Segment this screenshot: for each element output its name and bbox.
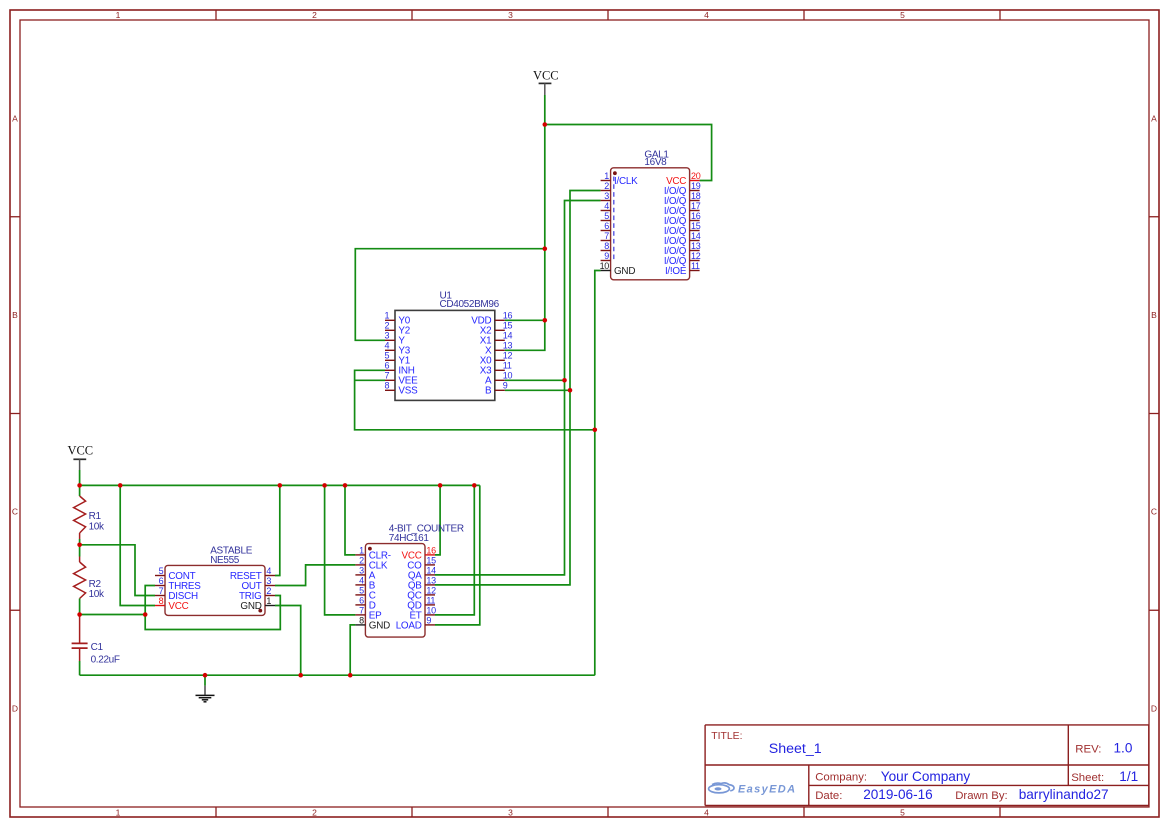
svg-text:10: 10	[600, 261, 610, 271]
junction R1/R2 node	[77, 543, 82, 548]
svg-text:NE555: NE555	[210, 555, 240, 566]
svg-text:0.22uF: 0.22uF	[91, 654, 120, 665]
svg-text:1: 1	[116, 10, 121, 20]
wire rail to 74HC161 EP pin7	[325, 485, 356, 615]
wire VCC to GAL1 VCC pin20	[545, 125, 712, 181]
svg-text:C: C	[12, 507, 18, 517]
svg-text:3: 3	[384, 331, 389, 341]
svg-text:A: A	[1151, 114, 1157, 124]
svg-text:14: 14	[503, 331, 513, 341]
svg-text:12: 12	[691, 251, 701, 261]
svg-text:11: 11	[426, 595, 435, 605]
svg-text:LOAD: LOAD	[396, 620, 422, 631]
junction ground net corner	[593, 428, 598, 433]
svg-text:10k: 10k	[89, 522, 105, 533]
svg-text:7: 7	[159, 586, 164, 596]
svg-text:4: 4	[266, 566, 271, 576]
wire U1 Y pin3 to VCC net	[355, 249, 545, 341]
svg-text:8: 8	[384, 381, 389, 391]
svg-text:Company:: Company:	[815, 772, 867, 784]
power flag VCC top	[533, 68, 559, 95]
svg-text:10k: 10k	[89, 589, 105, 600]
svg-text:C: C	[1151, 507, 1157, 517]
IC NE555 ASTABLE timer	[155, 565, 275, 615]
resistor R1 10k	[74, 485, 105, 544]
svg-text:7: 7	[384, 371, 389, 381]
wire U1 VDD pin16 to VCC net	[505, 319, 545, 321]
svg-text:6: 6	[384, 361, 389, 371]
IC 74HC161 4-BIT_COUNTER	[355, 544, 436, 638]
svg-text:3: 3	[266, 576, 271, 586]
svg-text:5: 5	[604, 211, 609, 221]
svg-text:barrylinando27: barrylinando27	[1019, 787, 1109, 802]
svg-text:1: 1	[604, 171, 609, 181]
power flag VCC left	[67, 443, 93, 485]
IC GAL1 16V8 PLD	[600, 168, 701, 280]
svg-text:8: 8	[604, 241, 609, 251]
wire NE555 THRES pin6 to TRIG pin2	[145, 586, 280, 630]
svg-text:I/CLK: I/CLK	[614, 176, 638, 187]
svg-text:VCC: VCC	[67, 443, 93, 457]
svg-text:74HC161: 74HC161	[389, 533, 430, 544]
svg-text:15: 15	[503, 321, 513, 331]
svg-text:1.0: 1.0	[1114, 741, 1133, 756]
svg-text:15: 15	[691, 221, 701, 231]
svg-text:VSS: VSS	[398, 386, 418, 397]
wire U1 VEE pin7 stub	[355, 379, 385, 381]
wire rail to 74HC161 CLR- pin1	[345, 485, 355, 555]
svg-text:VCC: VCC	[168, 601, 188, 612]
svg-text:13: 13	[426, 575, 436, 585]
svg-text:2: 2	[312, 10, 317, 20]
wire U1 A pin10 branch	[505, 379, 565, 381]
wire VCC vertical to U1 X pin13	[505, 95, 545, 350]
svg-text:4: 4	[604, 201, 609, 211]
wire GAL1 GND pin10 down to ground rail	[595, 271, 601, 676]
svg-text:8: 8	[159, 596, 164, 606]
svg-text:I/!OE: I/!OE	[665, 266, 687, 277]
svg-text:4: 4	[704, 807, 709, 817]
svg-text:12: 12	[503, 351, 513, 361]
ground symbol	[196, 675, 215, 702]
svg-text:16: 16	[691, 211, 701, 221]
wire R2/C1 node to THRES net	[80, 614, 146, 616]
svg-text:20: 20	[691, 171, 701, 181]
svg-text:8: 8	[359, 615, 364, 625]
svg-text:2: 2	[384, 321, 389, 331]
wire ground rail	[80, 674, 595, 676]
svg-text:Drawn By:: Drawn By:	[955, 790, 1008, 802]
svg-text:1/1: 1/1	[1119, 769, 1138, 784]
wire rail to 74HC161 VCC pin16	[435, 485, 440, 555]
svg-text:7: 7	[359, 605, 364, 615]
svg-text:16: 16	[426, 545, 436, 555]
svg-text:1: 1	[359, 545, 364, 555]
junctions on ground rail	[203, 673, 353, 678]
svg-text:GND: GND	[614, 266, 635, 277]
wire NE555 GND pin1 to ground rail	[275, 606, 301, 676]
svg-text:18: 18	[691, 191, 701, 201]
wire U1 INH pin6 / VEE pin7 to ground net	[355, 370, 595, 430]
svg-text:4: 4	[384, 341, 389, 351]
svg-text:A: A	[12, 114, 18, 124]
svg-text:2: 2	[266, 586, 271, 596]
svg-text:14: 14	[426, 565, 436, 575]
svg-text:3: 3	[604, 191, 609, 201]
svg-text:16: 16	[503, 311, 513, 321]
svg-text:2019-06-16: 2019-06-16	[863, 787, 933, 802]
GAL1 active-low indicator dashed line	[613, 177, 615, 261]
svg-text:D: D	[12, 704, 18, 714]
svg-text:3: 3	[508, 10, 513, 20]
svg-text:6: 6	[604, 221, 609, 231]
svg-text:9: 9	[426, 615, 431, 625]
svg-text:12: 12	[426, 585, 436, 595]
wire NE555 OUT pin3 to 74HC161 CLK pin2	[275, 565, 355, 586]
svg-text:1: 1	[384, 311, 389, 321]
svg-text:6: 6	[359, 595, 364, 605]
svg-text:15: 15	[426, 555, 436, 565]
svg-text:Date:: Date:	[815, 790, 842, 802]
wire rail to NE555 VCC pin8	[120, 485, 155, 605]
svg-text:2: 2	[604, 181, 609, 191]
svg-text:4: 4	[704, 10, 709, 20]
svg-text:5: 5	[359, 585, 364, 595]
svg-text:C1: C1	[91, 642, 104, 653]
svg-text:9: 9	[503, 381, 508, 391]
svg-text:VCC: VCC	[533, 68, 559, 82]
svg-text:GND: GND	[369, 620, 390, 631]
svg-text:R2: R2	[89, 579, 102, 590]
svg-text:1: 1	[116, 807, 121, 817]
svg-text:B: B	[1151, 310, 1157, 320]
wire R1/R2 node to NE555 DISCH pin7	[80, 545, 155, 596]
svg-text:11: 11	[691, 261, 700, 271]
svg-text:3: 3	[359, 565, 364, 575]
svg-text:10: 10	[503, 371, 513, 381]
wire rail to 74HC161 ET pin10	[435, 485, 474, 615]
svg-text:19: 19	[691, 181, 701, 191]
svg-text:5: 5	[900, 10, 905, 20]
svg-text:4: 4	[359, 575, 364, 585]
junction R2/C1 node	[77, 612, 147, 617]
svg-text:Your Company: Your Company	[881, 769, 971, 784]
wire 74HC161 QA pin14 to U1 A pin10 and GAL1 pin3	[435, 201, 601, 575]
svg-text:5: 5	[900, 807, 905, 817]
wire 74HC161 GND pin8 to ground rail	[350, 625, 355, 675]
IC U1 CD4052BM96 analog mux	[384, 310, 512, 400]
svg-text:6: 6	[159, 576, 164, 586]
svg-text:1: 1	[266, 596, 271, 606]
svg-text:REV:: REV:	[1075, 743, 1101, 755]
svg-text:9: 9	[604, 251, 609, 261]
svg-text:2: 2	[359, 555, 364, 565]
svg-text:17: 17	[691, 201, 701, 211]
svg-text:2: 2	[312, 807, 317, 817]
wire NE555 RESET pin4 to rail	[275, 485, 280, 575]
junctions on VCC vertical net	[543, 122, 548, 322]
resistor R2 10k	[74, 545, 105, 615]
svg-text:R1: R1	[89, 511, 102, 522]
svg-text:TITLE:: TITLE:	[711, 731, 742, 742]
junction U1 A pin	[562, 378, 567, 383]
junction U1 B pin	[568, 388, 573, 393]
junction dots on VCC rail	[77, 483, 476, 488]
svg-text:B: B	[485, 386, 492, 397]
svg-text:16V8: 16V8	[644, 157, 667, 168]
svg-text:D: D	[1151, 704, 1157, 714]
svg-text:3: 3	[508, 807, 513, 817]
wire 74HC161 QB pin13 to U1 B pin9 and GAL1 pin2	[435, 191, 601, 585]
svg-text:Sheet_1: Sheet_1	[769, 741, 822, 757]
svg-text:5: 5	[159, 566, 164, 576]
svg-text:13: 13	[691, 241, 701, 251]
svg-text:14: 14	[691, 231, 701, 241]
svg-text:Sheet:: Sheet:	[1071, 772, 1104, 784]
wire U1 B pin9 branch	[505, 389, 570, 391]
svg-text:10: 10	[426, 605, 436, 615]
svg-text:13: 13	[503, 341, 513, 351]
wire VCC rail	[80, 484, 480, 486]
svg-text:CD4052BM96: CD4052BM96	[440, 299, 500, 310]
svg-text:5: 5	[384, 351, 389, 361]
svg-text:7: 7	[604, 231, 609, 241]
svg-text:B: B	[12, 310, 18, 320]
wire rail to 74HC161 LOAD pin9	[435, 485, 480, 625]
svg-text:11: 11	[503, 361, 512, 371]
svg-text:EasyEDA: EasyEDA	[738, 784, 796, 796]
capacitor C1 0.22uF	[72, 615, 120, 676]
